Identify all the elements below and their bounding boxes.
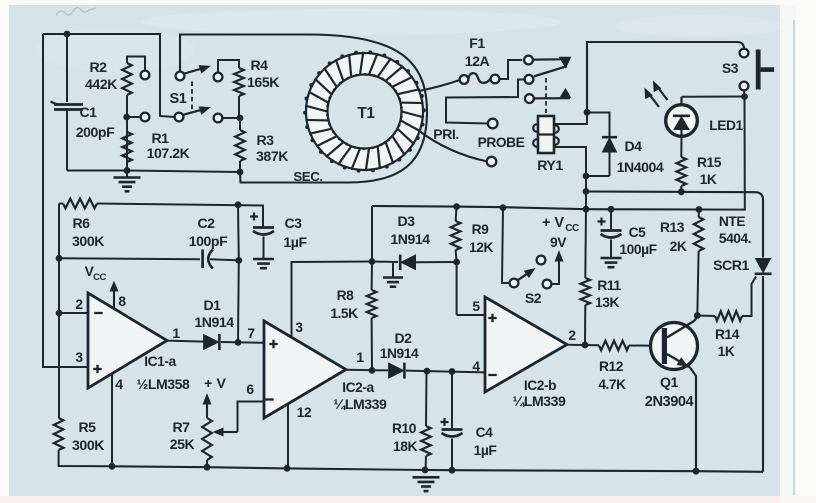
svg-text:4: 4: [115, 376, 123, 392]
svg-text:T1: T1: [357, 105, 375, 122]
svg-text:IC2-b: IC2-b: [524, 378, 556, 393]
svg-text:R4: R4: [250, 57, 268, 73]
svg-text:+: +: [542, 215, 550, 231]
svg-text:C5: C5: [629, 225, 647, 240]
svg-text:R6: R6: [72, 215, 90, 231]
svg-text:R10: R10: [392, 421, 417, 436]
svg-text:R11: R11: [597, 278, 621, 293]
svg-text:S1: S1: [170, 91, 187, 107]
svg-text:2K: 2K: [670, 239, 687, 254]
svg-text:V: V: [554, 215, 564, 231]
svg-text:S2: S2: [525, 290, 542, 306]
svg-text:SEC.: SEC.: [293, 169, 322, 184]
svg-text:107.2K: 107.2K: [147, 145, 191, 161]
svg-text:SCR1: SCR1: [713, 257, 749, 273]
svg-text:C4: C4: [476, 425, 494, 440]
svg-text:D2: D2: [394, 330, 412, 346]
svg-text:4: 4: [472, 359, 480, 374]
svg-text:4.7K: 4.7K: [598, 377, 626, 392]
svg-text:R15: R15: [697, 155, 722, 170]
svg-text:1N914: 1N914: [390, 231, 430, 247]
svg-text:5: 5: [472, 299, 480, 314]
svg-text:V: V: [217, 375, 227, 391]
svg-text:1µF: 1µF: [474, 443, 497, 458]
svg-text:PROBE: PROBE: [478, 135, 525, 150]
svg-text:12A: 12A: [465, 53, 490, 69]
svg-text:¼LM339: ¼LM339: [513, 393, 567, 409]
svg-text:12K: 12K: [469, 240, 493, 255]
svg-text:1N914: 1N914: [380, 346, 419, 361]
svg-text:+: +: [204, 375, 212, 391]
svg-text:300K: 300K: [72, 233, 105, 249]
svg-text:IC2-a: IC2-a: [342, 380, 374, 395]
svg-text:12: 12: [297, 405, 312, 420]
svg-text:1: 1: [356, 350, 364, 365]
svg-text:R9: R9: [472, 222, 490, 237]
svg-text:165K: 165K: [247, 74, 280, 90]
svg-text:1µF: 1µF: [283, 234, 307, 250]
svg-text:R14: R14: [715, 327, 740, 342]
svg-text:C3: C3: [284, 215, 302, 231]
svg-text:D3: D3: [397, 213, 415, 229]
svg-text:3: 3: [295, 320, 303, 335]
svg-text:IC1-a: IC1-a: [144, 354, 176, 369]
svg-text:1N4004: 1N4004: [617, 159, 664, 175]
svg-text:1N914: 1N914: [194, 314, 234, 330]
svg-text:2: 2: [75, 297, 83, 312]
svg-text:1.5K: 1.5K: [330, 306, 358, 321]
svg-text:18K: 18K: [393, 439, 417, 454]
svg-text:R13: R13: [660, 220, 685, 235]
svg-text:100pF: 100pF: [189, 233, 228, 249]
svg-text:200pF: 200pF: [76, 124, 115, 140]
svg-text:300K: 300K: [72, 437, 105, 453]
svg-text:1: 1: [172, 326, 180, 341]
svg-text:R2: R2: [89, 59, 107, 75]
svg-text:442K: 442K: [85, 76, 118, 92]
svg-text:CC: CC: [565, 223, 579, 234]
svg-text:D1: D1: [203, 297, 221, 313]
svg-text:Q1: Q1: [660, 374, 679, 390]
svg-text:PRI.: PRI.: [433, 126, 459, 142]
svg-text:F1: F1: [469, 35, 485, 51]
svg-text:1K: 1K: [700, 172, 717, 187]
svg-text:C1: C1: [79, 104, 97, 120]
svg-text:R1: R1: [151, 130, 169, 146]
svg-text:R7: R7: [172, 419, 190, 435]
svg-text:R3: R3: [256, 132, 274, 148]
svg-text:25K: 25K: [170, 436, 196, 452]
svg-text:9V: 9V: [550, 235, 567, 250]
svg-text:387K: 387K: [256, 148, 289, 164]
svg-text:C2: C2: [197, 215, 215, 231]
svg-text:LED1: LED1: [709, 118, 743, 133]
svg-text:S3: S3: [722, 61, 739, 76]
svg-text:RY1: RY1: [537, 157, 563, 173]
svg-text:3: 3: [75, 350, 83, 365]
svg-text:CC: CC: [93, 272, 106, 283]
svg-text:2N3904: 2N3904: [645, 394, 695, 410]
svg-text:13K: 13K: [595, 295, 619, 310]
svg-text:1K: 1K: [718, 344, 735, 359]
svg-text:R8: R8: [337, 288, 355, 303]
svg-text:8: 8: [118, 294, 126, 309]
svg-text:6: 6: [246, 382, 254, 397]
svg-text:R5: R5: [78, 419, 96, 435]
svg-text:D4: D4: [624, 138, 642, 154]
svg-text:2: 2: [568, 328, 576, 343]
svg-text:NTE: NTE: [719, 214, 745, 229]
svg-text:100µF: 100µF: [619, 242, 656, 257]
svg-text:7: 7: [247, 326, 255, 341]
svg-text:R12: R12: [599, 359, 624, 374]
svg-text:½LM358: ½LM358: [137, 376, 191, 392]
svg-text:5404.: 5404.: [719, 231, 751, 246]
svg-text:¼LM339: ¼LM339: [334, 396, 388, 412]
